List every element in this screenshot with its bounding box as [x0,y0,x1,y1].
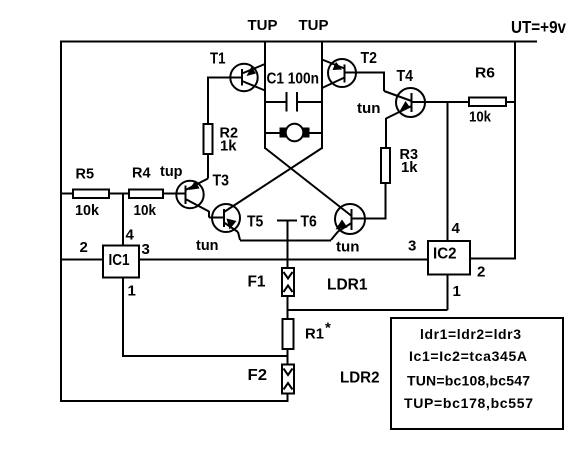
wire R3 to T6 collector [352,183,386,220]
resistor R3 [381,148,390,183]
resistor R6 [469,98,506,107]
wire T4 emitter to R3 [385,118,387,148]
svg-text:2: 2 [477,264,485,281]
svg-text:T4: T4 [397,68,414,85]
svg-text:F1: F1 [248,274,266,291]
op-amp IC1 [103,246,139,278]
svg-text:LDR2: LDR2 [340,370,380,387]
svg-text:10k: 10k [469,109,492,126]
wire R4 to T3 base [163,193,186,195]
wire IC1 pin1 run [122,278,288,358]
op-amp IC2 [428,241,470,275]
transistor T4 [386,88,425,119]
wire top +9v rail [60,41,537,43]
wire bus IC1 pin2 to left rail [61,259,103,261]
svg-text:4: 4 [452,220,461,237]
resistor R2 [204,124,213,154]
svg-text:tup: tup [160,163,183,180]
svg-text:UT=+9v: UT=+9v [511,17,566,37]
svg-text:T3: T3 [213,173,230,190]
wire R1 to F2 [287,349,289,365]
svg-text:10k: 10k [134,202,157,219]
wire F1 to R1 [287,296,289,319]
svg-text:3: 3 [142,241,150,258]
transistor T5 [212,204,240,240]
svg-text:T5: T5 [247,214,264,231]
svg-text:2: 2 [80,239,88,256]
fuse F2 (LDR2 element) [282,365,294,394]
transistor T6 [331,204,365,240]
wire bus IC2 pin2 to right vertical [470,258,515,260]
wire junction to IC2 pin1 [288,275,448,311]
wire junction to IC1 pin4 [122,194,124,246]
resistor R1 [283,319,294,349]
wire F2 to bottom return [287,394,289,402]
wire R6 to right vertical [506,101,515,103]
svg-text:Ic1=Ic2=tca345A: Ic1=Ic2=tca345A [409,348,527,364]
svg-text:IC1: IC1 [109,252,130,269]
svg-text:1: 1 [453,283,461,300]
wire T1 base to R2 [208,77,242,125]
node center tap bar [277,220,297,222]
svg-text:ldr1=ldr2=ldr3: ldr1=ldr2=ldr3 [420,326,521,342]
svg-text:1k: 1k [401,159,418,176]
wire bottom return [61,400,289,402]
wire center tap down to F1 [287,221,289,269]
wire R5 to R4 junction [109,193,129,195]
svg-text:1: 1 [128,283,136,300]
svg-text:T2: T2 [361,50,378,67]
svg-text:TUP=bc178,bc557: TUP=bc178,bc557 [404,395,533,411]
wire bus IC1 pin3 to IC2 pin3 [139,259,428,261]
resistor R4 [129,190,163,199]
node parts list box [391,318,563,429]
svg-text:4: 4 [126,227,135,244]
svg-text:T1: T1 [210,51,226,68]
wire R2 to T3 emitter [207,154,209,179]
svg-text:LDR1: LDR1 [327,277,368,294]
transistor T2 [322,59,356,88]
svg-text:C1 100n: C1 100n [267,71,320,88]
resistor R5 [73,190,109,199]
svg-text:TUN=bc108,bc547: TUN=bc108,bc547 [407,373,530,389]
svg-text:TUP: TUP [248,17,278,34]
svg-text:R1: R1 [305,326,324,343]
capacitor C1 [265,92,322,112]
svg-text:TUP: TUP [299,17,329,34]
svg-text:tun: tun [196,237,219,254]
wire cross diagonal to T5 collector [224,148,322,212]
svg-text:tun: tun [336,239,360,256]
wire T2 base to T4 [345,72,412,102]
wire emitter bus T5-T6 [240,240,331,242]
wire R5 from left rail [61,193,73,195]
label R1* [305,320,331,343]
wire T4 collector to R6 [412,101,470,103]
svg-text:tun: tun [357,100,381,117]
fuse F1 (LDR1 element) [282,268,294,296]
svg-text:R6: R6 [475,65,495,82]
wire trunk left (TUP emitter to rail) [264,42,266,150]
wire cross diagonal to T6 base [265,148,351,216]
svg-text:T6: T6 [301,214,318,231]
svg-text:R5: R5 [76,167,95,183]
transistor T1 [230,64,265,91]
wire T3 collector to T5 base [209,211,224,218]
svg-text:R4: R4 [132,166,151,182]
wire left rail [60,41,62,403]
svg-text:*: * [325,320,331,337]
wire trunk right (TUP emitter to rail) [321,42,323,150]
motor M1 (lamp symbol between trunks) [265,124,322,142]
wire right vertical from rail to IC2 pin2 net [514,42,516,260]
transistor T3 [176,179,209,212]
svg-text:IC2: IC2 [433,246,457,263]
svg-text:F2: F2 [248,367,268,384]
svg-text:3: 3 [408,238,416,255]
svg-text:1k: 1k [220,138,237,155]
wire junction to IC2 pin4 [447,102,449,241]
svg-text:10k: 10k [75,202,100,219]
